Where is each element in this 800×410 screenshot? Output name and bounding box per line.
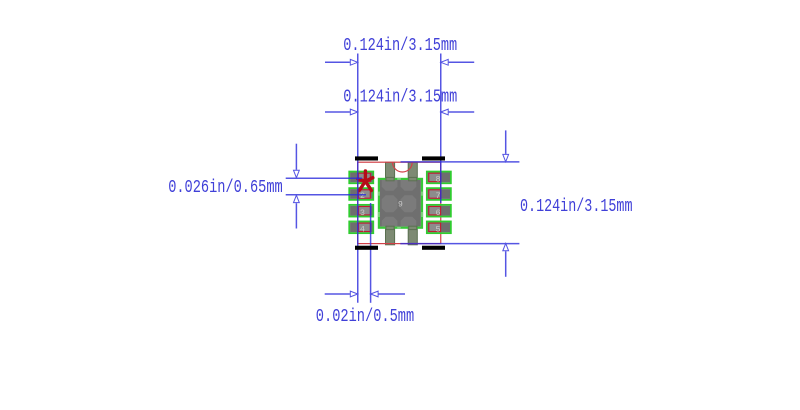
svg-text:2: 2	[360, 191, 365, 201]
svg-text:0.124in/3.15mm: 0.124in/3.15mm	[343, 87, 457, 107]
svg-text:5: 5	[435, 225, 440, 235]
svg-text:4: 4	[360, 225, 365, 235]
svg-text:0.02in/0.5mm: 0.02in/0.5mm	[316, 307, 414, 327]
svg-text:0.026in/0.65mm: 0.026in/0.65mm	[168, 178, 283, 198]
svg-text:3: 3	[360, 208, 365, 218]
svg-text:9: 9	[398, 201, 403, 210]
svg-text:6: 6	[435, 208, 440, 218]
svg-text:0.124in/3.15mm: 0.124in/3.15mm	[343, 36, 457, 56]
svg-text:8: 8	[435, 175, 440, 185]
svg-text:7: 7	[435, 191, 440, 201]
svg-text:0.124in/3.15mm: 0.124in/3.15mm	[520, 197, 633, 217]
